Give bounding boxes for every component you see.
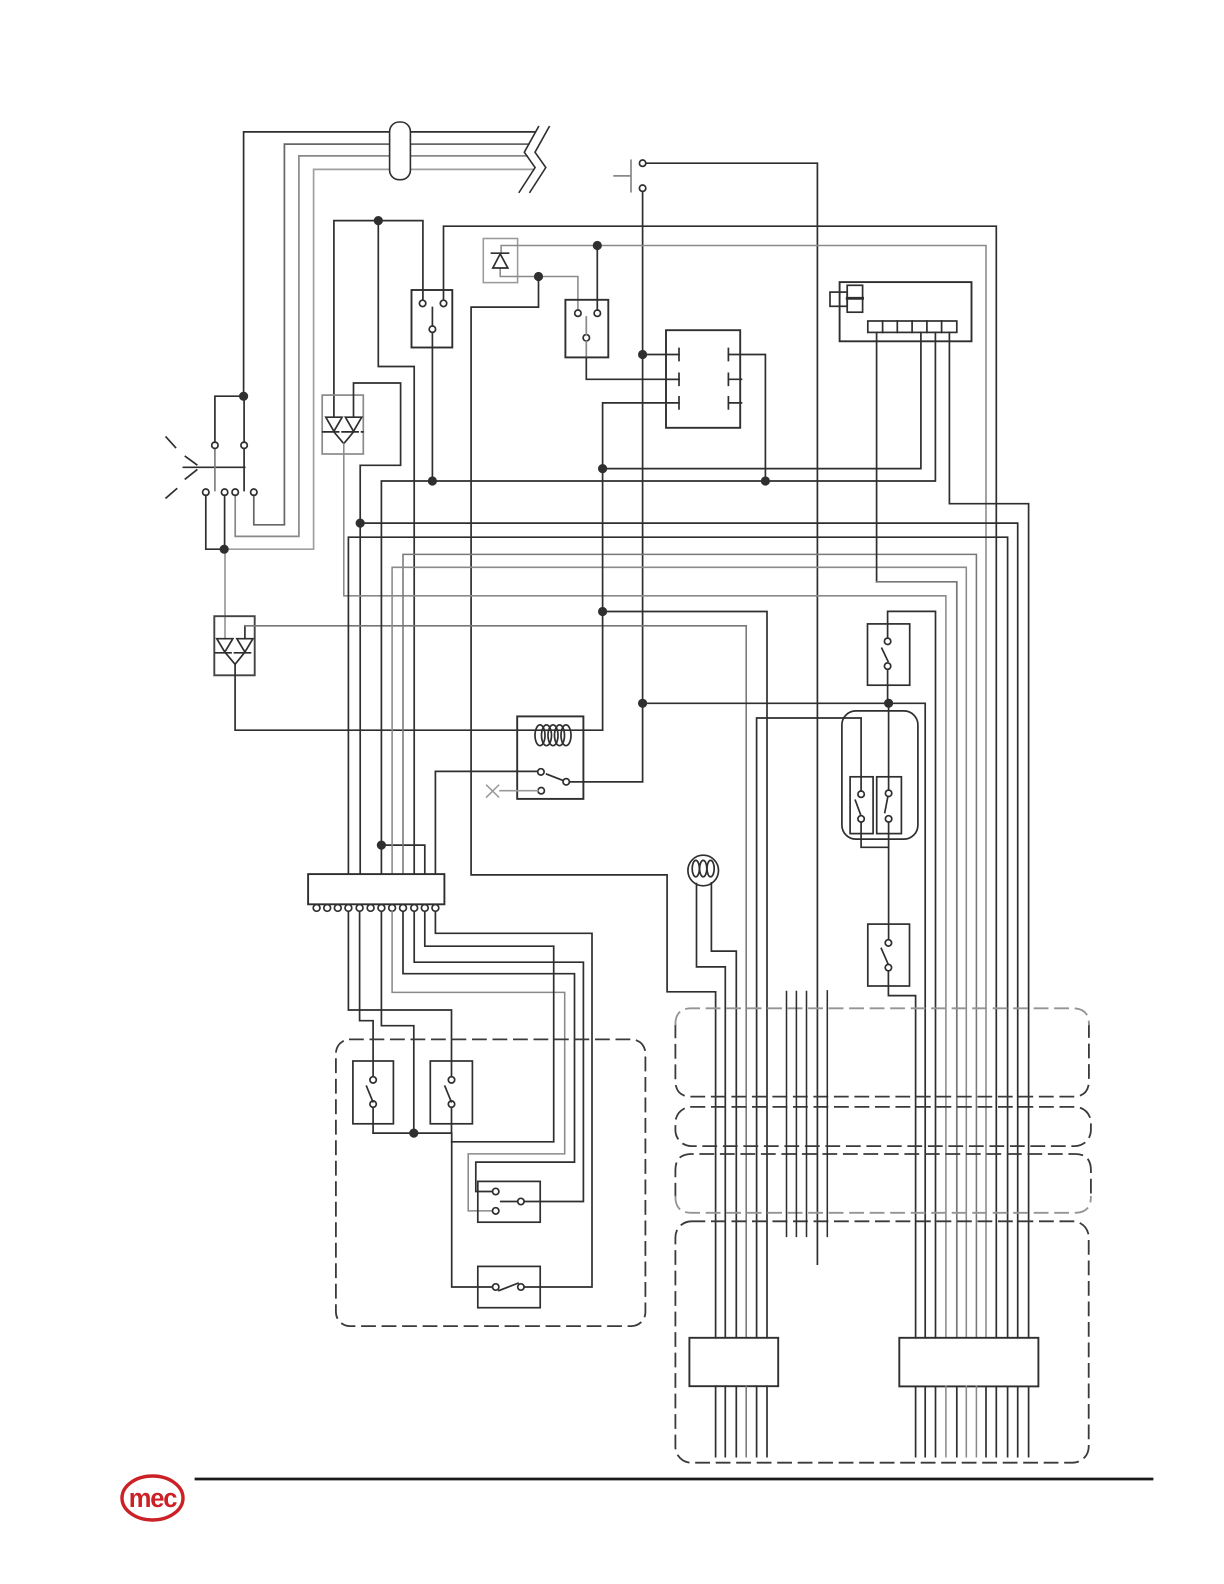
motor left switch circle bottom xyxy=(858,816,864,822)
wire bus B coil junction to controller cell4 xyxy=(603,332,921,468)
switch S1 lever xyxy=(431,308,433,326)
relay K1 coil loops xyxy=(535,725,545,746)
wire harness line 1 (battery +) xyxy=(244,132,535,396)
motor left switch circle top xyxy=(858,791,864,797)
wire bus A terminal strip to controller cell5 xyxy=(381,332,935,874)
motor left switch lever xyxy=(855,800,860,814)
wire DB2 right input top xyxy=(244,626,246,639)
node diode D1 output junction xyxy=(593,241,602,250)
wire SWR1 top to right connector xyxy=(888,611,936,1337)
battery terminal circle b2 xyxy=(221,489,227,495)
switch L1 circle top xyxy=(370,1077,376,1083)
wire D1 junction down to S2 pin2 xyxy=(596,246,598,311)
module M1 box xyxy=(666,330,740,428)
switch DP circle in1 xyxy=(493,1188,499,1194)
switch S2 circle common xyxy=(583,335,589,341)
dual diode DB2 triangles xyxy=(217,639,253,652)
switch L1 circle bottom xyxy=(370,1101,376,1107)
connector grommet pill xyxy=(390,122,411,180)
node bus A at S1 xyxy=(428,476,437,485)
battery terminal link top xyxy=(215,396,244,442)
wire below left connector gray xyxy=(745,1386,747,1457)
switch bottom circle left xyxy=(493,1284,499,1290)
dual diode DB1 triangles xyxy=(326,417,362,431)
controller A1 bold divider xyxy=(847,297,862,300)
diode D1 symbol xyxy=(492,253,509,268)
dual diode DB2 output vee xyxy=(225,652,245,664)
future option stub 1 xyxy=(786,992,788,1237)
switch S2 circle pin2 xyxy=(594,310,600,316)
switch SWR2 box xyxy=(868,924,910,986)
node coil line at bus B xyxy=(598,464,607,473)
dual diode block DB1 box xyxy=(322,395,363,454)
node junction battery feed xyxy=(220,545,229,554)
battery symbol diagonal dash lower xyxy=(166,489,177,498)
wire bus 537 xyxy=(348,537,1007,1338)
wires below right connector gray xyxy=(946,1386,977,1456)
controller A1 side tab xyxy=(830,292,847,306)
switch S1 circle common xyxy=(429,326,435,332)
chassis dashed box 4 xyxy=(675,1221,1088,1462)
wire relay NO to key vertical xyxy=(569,781,642,783)
wire DB1 output down xyxy=(344,444,946,1338)
wire diode D1 anode to S2 xyxy=(500,268,578,310)
switch SWR2 lever xyxy=(881,949,888,964)
wire L1 bottom to jumper xyxy=(372,1107,374,1133)
wire battery c1 to junction xyxy=(206,495,224,549)
switch bottom circle right xyxy=(518,1284,524,1290)
switch DP common lead xyxy=(501,1201,518,1203)
svg-text:mec: mec xyxy=(129,1485,177,1513)
chassis dashed box 2 xyxy=(675,1107,1091,1146)
wire S1 pin2 long top line xyxy=(444,226,997,1338)
switch bottom lever xyxy=(499,1283,518,1290)
node 703 at rounded box xyxy=(884,699,893,708)
switch SWR1 lever xyxy=(882,648,888,661)
battery terminal circle b1 xyxy=(203,489,209,495)
module M1 left pin ticks xyxy=(678,349,680,409)
wire SWR2 bottom to right connector xyxy=(888,971,915,1338)
battery terminal circle b3 xyxy=(232,489,238,495)
node jumper tap xyxy=(409,1129,418,1138)
wire strip c12 to bottom switch xyxy=(435,912,592,1288)
switch S1 box xyxy=(412,290,453,348)
wire harness line 4 xyxy=(224,169,534,549)
relay K1 contact NC circle xyxy=(538,788,544,794)
wire controller cell1 drop xyxy=(876,332,878,581)
controller A1 terminal row xyxy=(868,321,957,332)
wire harness line 2 xyxy=(254,144,529,525)
switch SWR1 circle top xyxy=(884,638,890,644)
mec logo ellipse xyxy=(122,1476,183,1520)
switch L2 circle bottom xyxy=(448,1101,454,1107)
switch SWR1 box xyxy=(868,624,910,685)
chassis dashed box 3 xyxy=(675,1154,1091,1197)
wire 611 branch to left connector xyxy=(603,612,767,1338)
wire strip c9 to DP switch upper xyxy=(403,912,575,1192)
wire DB2 right terminal across to right area xyxy=(245,626,746,1338)
dual diode DB1 cathode dashed bar xyxy=(323,431,363,433)
motor unit right switch box xyxy=(877,777,902,834)
wire jumper across xyxy=(373,1133,492,1287)
dual diode DB1 output vee xyxy=(334,432,354,444)
node anode line junction xyxy=(534,272,543,281)
dual diode block DB2 box xyxy=(214,616,254,675)
horn lamp circle xyxy=(688,855,719,886)
switch S1 circle pin1 xyxy=(419,300,425,306)
wire controller cell6 drop xyxy=(949,332,1028,1337)
wire harness line 3 xyxy=(235,156,527,537)
controller A1 stacked square lower xyxy=(847,298,862,312)
wire S2 common to module pin2 xyxy=(586,357,679,379)
wire bus 523 xyxy=(360,523,1018,1338)
relay K1 box xyxy=(517,716,583,799)
wire DB1 right input s-route xyxy=(354,383,401,874)
wire motor left switch feed xyxy=(757,718,862,1338)
node key line at horn feed xyxy=(638,699,647,708)
switch DP circle out xyxy=(518,1198,524,1204)
switch SWR2 circle bottom xyxy=(885,964,891,970)
cable break symbol zigzag 2 xyxy=(530,127,549,193)
battery terminal circle b4 xyxy=(251,489,257,495)
battery symbol bar xyxy=(183,448,244,490)
switch L2 circle top xyxy=(448,1077,454,1083)
wire anode junction to platform loop xyxy=(471,277,715,1338)
module M1 right pin ticks xyxy=(727,349,729,409)
switch L1 lever xyxy=(367,1086,373,1102)
switch S2 circle pin1 xyxy=(575,310,581,316)
wire junction down to diode block 2 xyxy=(224,549,226,639)
wire horn left leg xyxy=(697,884,726,1338)
motor right switch circle bottom xyxy=(885,816,891,822)
node S1 feed branch xyxy=(374,216,383,225)
switch bottom SW box xyxy=(478,1266,540,1307)
dual diode DB2 cathode dashed bar xyxy=(215,652,254,654)
switch SWR2 circle top xyxy=(885,940,891,946)
wire key switch main vertical xyxy=(569,191,642,781)
switch DP box xyxy=(478,1181,540,1222)
switch L2 box xyxy=(430,1061,472,1124)
switch DP circle in2 xyxy=(493,1208,499,1214)
chassis dashed box 1 xyxy=(675,1024,1089,1096)
ground connector left xyxy=(689,1338,778,1386)
wire L2 bottom to jumper xyxy=(451,1107,453,1133)
wire horn feed bus 703 xyxy=(643,703,926,1338)
motor right switch circle top xyxy=(885,790,891,796)
switch SWR1 circle bottom xyxy=(884,663,890,669)
ground connector right xyxy=(899,1338,1038,1387)
future option stub 2 xyxy=(795,992,797,1237)
relay K1 lever xyxy=(547,774,563,780)
wire motor left switch bottom jog xyxy=(861,822,889,847)
cable break symbol zigzag 1 xyxy=(519,127,538,193)
terminal strip TB1 box xyxy=(308,874,444,904)
wire relay common to strip 8 xyxy=(435,771,537,874)
future option stub 3 xyxy=(806,992,808,1237)
node bus A strip jumper xyxy=(377,841,386,850)
wire DB2 output to relay coil xyxy=(235,664,602,730)
key switch contact circle 1 xyxy=(639,160,645,166)
wire bus 567 xyxy=(392,567,966,1338)
switch S2 box xyxy=(565,300,608,358)
wire strip c7 to jumper dot xyxy=(381,912,413,1134)
wire strip c8 to DP switch lower (gray) xyxy=(392,912,565,1211)
wire battery c2 to junction xyxy=(224,495,226,549)
wire strip jumper xyxy=(381,845,424,874)
controller A1 stacked square upper xyxy=(847,285,862,298)
footer rule xyxy=(196,1478,1152,1481)
motor right switch lever xyxy=(885,796,888,812)
controller A1 outer box xyxy=(840,282,972,341)
wire horn right leg xyxy=(711,883,736,1338)
wire module pin3 to coil vertical xyxy=(603,403,666,730)
wire module pin1 right to bus A xyxy=(740,355,765,482)
wire SWR1 bottom to node xyxy=(887,669,889,700)
wire module pin1 feed from key line xyxy=(643,354,666,356)
wire motor right switch bottom down xyxy=(888,822,890,940)
node junction harness line1 xyxy=(239,392,248,401)
node coil line at 611 xyxy=(598,607,607,616)
motor unit rounded box xyxy=(842,711,918,839)
wire diode D1 cathode feed xyxy=(501,246,986,1338)
relay K1 contact NO circle xyxy=(563,779,569,785)
wire strip c11 to jumper tee xyxy=(425,912,554,1142)
switch L2 lever xyxy=(445,1086,451,1102)
wire relay NC to X xyxy=(500,790,538,792)
wire S1 common down xyxy=(431,332,433,481)
switch S2 lever xyxy=(585,317,587,357)
relay X terminator xyxy=(487,785,499,797)
wire bus 554 xyxy=(403,554,976,1337)
wire strip c5 to switch L1 xyxy=(360,912,374,1077)
platform dashed enclosure xyxy=(336,1039,646,1326)
module M1 right pin leads xyxy=(728,355,741,403)
diode D1 box xyxy=(483,239,517,283)
wire strip c4 to switch L2 xyxy=(348,912,451,1077)
horn lamp coil detail xyxy=(692,860,699,876)
battery symbol diagonal dash upper xyxy=(166,437,175,447)
relay K1 contact common circle xyxy=(538,769,544,775)
module M1 left pin leads xyxy=(666,355,679,403)
battery terminal circle t1 xyxy=(212,442,218,448)
motor unit left switch box xyxy=(850,777,873,834)
wires below left connector xyxy=(716,1386,767,1457)
wire key switch to right drop xyxy=(646,163,818,1264)
switch L1 box xyxy=(353,1061,394,1124)
node bus A at module pin1 drop xyxy=(761,476,770,485)
battery symbol arrow xyxy=(185,456,196,479)
wire strip c10 to DP switch common xyxy=(414,912,583,1202)
key switch contact circle 2 xyxy=(639,185,645,191)
wires below right connector xyxy=(916,1386,1029,1456)
wire motor right switch feed from node xyxy=(888,703,890,790)
battery terminal circle t2 xyxy=(241,442,247,448)
node DB1 route at bus xyxy=(356,519,365,528)
node key line at module pin1 xyxy=(638,350,647,359)
wire branch to terminal strip 10 xyxy=(378,221,414,875)
future option stub 4 xyxy=(826,991,828,1237)
terminal strip circles xyxy=(313,905,320,912)
key switch symbol xyxy=(614,160,631,191)
wire S1 feed horizontal xyxy=(334,221,423,418)
switch S1 circle pin2 xyxy=(440,300,446,306)
